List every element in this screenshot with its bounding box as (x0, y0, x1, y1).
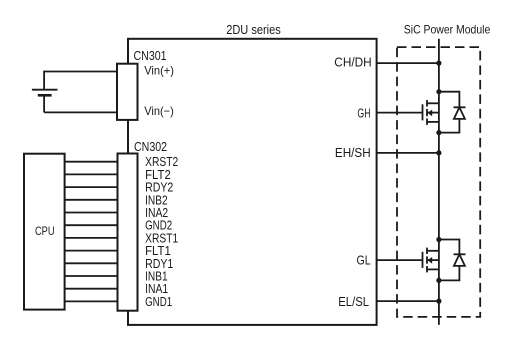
wire GND2 (65, 224, 118, 226)
diode D2 (body diode Q2) (439, 240, 466, 281)
channel segment source Q2 (426, 266, 428, 272)
arrow body Q2 (427, 257, 432, 264)
wire INA2 (65, 212, 118, 214)
wire INA1 (65, 288, 118, 290)
svg-text:GND1: GND1 (145, 295, 172, 309)
SiC power module dashed box (397, 47, 480, 317)
node EH/SH junction (436, 150, 441, 155)
node CH/DH junction (436, 61, 441, 66)
svg-text:CN302: CN302 (134, 139, 167, 154)
wire FLT2 (65, 173, 118, 175)
wire battery plus to CN301 (44, 71, 117, 73)
wire D1 bottom (439, 119, 460, 133)
connector CN302 (118, 154, 138, 311)
wire D2 top (439, 240, 460, 255)
battery long plate (32, 89, 58, 91)
wire battery plus vertical (43, 71, 45, 90)
diode D1 (body diode Q1) (439, 92, 466, 133)
drain stub Q2 (427, 250, 439, 252)
arrow body Q1 (427, 110, 432, 117)
source stub Q2 (427, 268, 439, 270)
CPU block (24, 154, 65, 310)
output pin labels (334, 56, 371, 310)
body stub Q1 (427, 112, 439, 114)
pin labels CN302 (145, 155, 178, 309)
wire GND1 (65, 300, 118, 302)
svg-text:CN301: CN301 (134, 48, 167, 63)
source stub Q1 (427, 121, 439, 123)
svg-text:2DU series: 2DU series (226, 22, 281, 37)
wire EH/SH (377, 152, 439, 154)
wire EL/SL (377, 300, 439, 302)
node Q1 drain (436, 89, 441, 94)
wire GL (377, 259, 423, 261)
svg-text:CPU: CPU (35, 224, 55, 238)
svg-text:EL/SL: EL/SL (338, 295, 369, 309)
wire XRST1 (65, 237, 118, 239)
svg-text:GH: GH (357, 106, 370, 120)
node EL/SL junction (436, 299, 441, 304)
wire D2 bottom (439, 266, 460, 281)
channel segment body Q1 (426, 109, 428, 116)
wire XRST2 (65, 161, 118, 163)
cathode bar D1 (454, 106, 466, 108)
channel segment body Q2 (426, 256, 428, 263)
svg-text:SiC Power Module: SiC Power Module (404, 22, 491, 36)
wire DC bus vertical (438, 39, 440, 325)
svg-text:Vin(+): Vin(+) (144, 64, 174, 78)
svg-text:Vin(−): Vin(−) (144, 104, 174, 118)
transistor Q1 (high side SiC MOSFET) (423, 100, 439, 125)
channel segment source Q1 (426, 119, 428, 125)
cathode bar D2 (454, 253, 466, 255)
wire CH/DH (377, 62, 439, 64)
svg-text:EH/SH: EH/SH (335, 146, 371, 160)
channel segment drain Q2 (426, 248, 428, 254)
diode triangle D1 (454, 107, 465, 119)
battery B1 (32, 71, 117, 113)
wires CPU to CN302 (65, 162, 118, 302)
diode triangle D2 (454, 254, 465, 266)
wire battery minus vertical (43, 95, 45, 112)
body stub Q2 (427, 259, 439, 261)
module box 2DU series (128, 39, 377, 325)
node Q2 source (436, 278, 441, 283)
transistor Q2 (low side SiC MOSFET) (423, 248, 439, 273)
wire INB1 (65, 275, 118, 277)
wire FLT1 (65, 250, 118, 252)
node Q2 drain (436, 237, 441, 242)
svg-text:CH/DH: CH/DH (334, 56, 371, 70)
wire battery minus to CN301 (44, 111, 117, 113)
node Q1 source (436, 130, 441, 135)
wire D1 top (439, 92, 460, 108)
wire RDY2 (65, 186, 118, 188)
wire INB2 (65, 199, 118, 201)
connector CN301 (117, 64, 138, 120)
wire RDY1 (65, 262, 118, 264)
wires module outputs (377, 39, 439, 325)
wire GH (377, 112, 423, 114)
gate plate Q1 (422, 104, 424, 120)
gate plate Q2 (422, 252, 424, 268)
channel segment drain Q1 (426, 100, 428, 106)
battery short plate (38, 94, 52, 97)
drain stub Q1 (427, 102, 439, 104)
svg-text:GL: GL (357, 254, 371, 268)
